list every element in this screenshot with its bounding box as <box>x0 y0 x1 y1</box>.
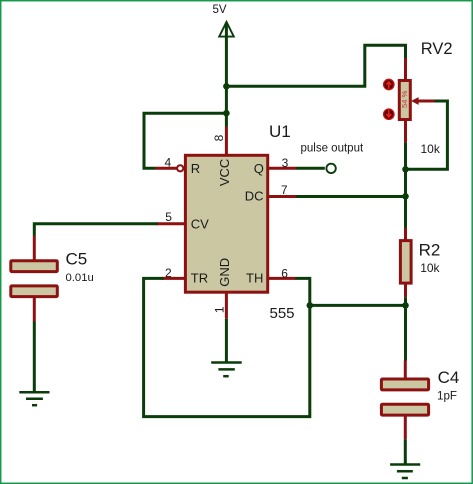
wire stub into C4 <box>404 361 407 379</box>
wire 5V down to junction A <box>225 23 228 87</box>
svg-text:10k: 10k <box>421 142 441 156</box>
pin 6 TH stub <box>268 277 296 280</box>
svg-text:TH: TH <box>246 271 263 286</box>
potentiometer RV2 top stub <box>404 58 407 80</box>
resistor R2 body <box>400 241 411 284</box>
junction B <box>223 110 230 117</box>
svg-text:6: 6 <box>281 266 288 280</box>
wire TH to corner and junction <box>295 278 309 305</box>
svg-text:1: 1 <box>213 306 227 313</box>
ground (below C5) <box>19 392 49 405</box>
pin 5 CV stub <box>156 222 186 225</box>
svg-text:10k: 10k <box>420 261 440 275</box>
svg-text:0.01u: 0.01u <box>66 272 94 284</box>
RV2 down button <box>384 109 394 119</box>
svg-text:VCC: VCC <box>217 159 232 186</box>
wire wiper to right rail junction <box>406 101 448 169</box>
svg-text:pulse output: pulse output <box>301 142 364 154</box>
capacitor C5 bottom plate <box>11 286 58 297</box>
svg-text:2: 2 <box>165 266 172 280</box>
wire Q to output <box>296 167 325 170</box>
junction R2/TH/C4 <box>402 302 409 309</box>
wire stub into C5 top <box>33 236 36 260</box>
pin 2 TR stub <box>162 277 185 280</box>
pin 7 DC stub <box>268 195 297 198</box>
wire junction A right and up to RV2 top <box>226 45 405 86</box>
junction A <box>223 83 230 90</box>
svg-text:4: 4 <box>165 156 172 170</box>
svg-text:CV: CV <box>191 216 209 231</box>
IC U1 555 body <box>185 155 267 292</box>
svg-text:7: 7 <box>281 183 288 197</box>
svg-text:C4: C4 <box>438 368 460 387</box>
pin 4 R stub <box>156 167 177 170</box>
capacitor C4 top plate <box>381 379 428 390</box>
wire pin1 to ground <box>225 319 228 362</box>
wire DC to right rail <box>296 195 405 198</box>
svg-text:8: 8 <box>212 134 226 141</box>
resistor R2 top stub <box>404 228 407 241</box>
pin 3 Q stub <box>268 167 297 170</box>
wire TH junction to right rail <box>310 304 406 307</box>
pin 8 VCC stub <box>225 127 228 156</box>
wire C4 to ground <box>404 439 407 463</box>
power 5V arrow symbol <box>219 22 234 37</box>
wire junction down to C4 <box>404 305 407 360</box>
capacitor C4 bottom plate <box>381 404 428 415</box>
output terminal circle <box>326 164 335 173</box>
svg-text:5: 5 <box>165 210 172 224</box>
capacitor C5 top plate <box>11 261 58 272</box>
wire right rail pot to R2 <box>404 142 407 227</box>
RV2 up button <box>384 79 394 89</box>
wire CV to C5 <box>34 224 157 236</box>
wire C5 to ground <box>33 322 36 392</box>
svg-text:C5: C5 <box>66 250 88 269</box>
pin 4 inversion bubble <box>177 165 183 171</box>
svg-text:DC: DC <box>245 189 264 204</box>
wire junction A to junction B <box>225 86 228 113</box>
wire R2 to junction <box>404 297 407 305</box>
svg-text:5V: 5V <box>213 4 227 16</box>
svg-text:R2: R2 <box>419 241 441 260</box>
pin 1 GND stub <box>225 293 228 319</box>
junction wiper/rail <box>402 166 409 173</box>
svg-text:Q: Q <box>254 161 264 176</box>
junction TH <box>307 302 314 309</box>
RV2 wiper arrow <box>411 97 419 105</box>
potentiometer RV2 body <box>399 81 410 120</box>
svg-text:TR: TR <box>191 271 208 286</box>
junction DC/rail <box>402 193 409 200</box>
ground (below C4) <box>390 465 420 479</box>
ground (below U1) <box>211 363 242 377</box>
wire junction B left loop to pin R <box>144 113 226 168</box>
svg-text:3: 3 <box>282 156 289 170</box>
svg-text:R: R <box>191 161 200 176</box>
svg-text:GND: GND <box>217 258 232 287</box>
svg-text:1pF: 1pF <box>437 390 457 403</box>
wire C5 bottom stub <box>33 298 36 322</box>
wire TR loop down and right up to TH junction <box>144 278 310 416</box>
svg-text:54 %: 54 % <box>400 90 409 108</box>
wire C4 bottom stub <box>404 416 407 439</box>
svg-text:555: 555 <box>270 305 295 322</box>
svg-text:RV2: RV2 <box>421 40 453 58</box>
wire junction B down (to pin 8 stub) <box>225 113 228 126</box>
svg-text:U1: U1 <box>269 122 291 141</box>
potentiometer RV2 bottom stub <box>404 120 407 142</box>
resistor R2 bottom stub <box>404 283 407 297</box>
